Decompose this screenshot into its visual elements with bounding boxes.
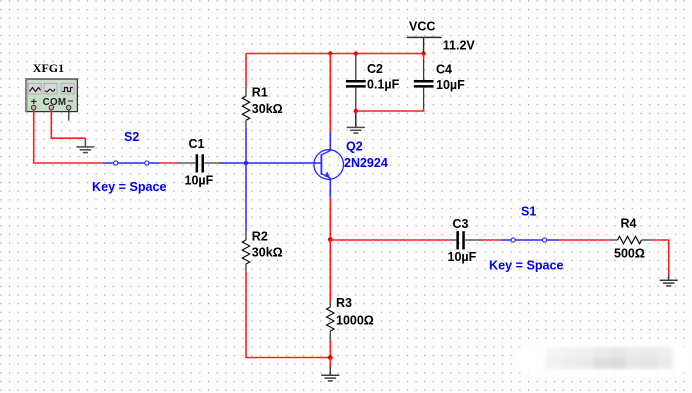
resistor R3 (327, 240, 374, 358)
svg-text:VCC: VCC (409, 20, 435, 34)
junction base node (244, 161, 248, 165)
svg-text:XFG1: XFG1 (33, 61, 64, 75)
power VCC (407, 20, 476, 54)
resistor R1 (242, 86, 282, 128)
svg-text:Q2: Q2 (346, 140, 363, 154)
svg-text:10µF: 10µF (436, 78, 465, 92)
resistor R4 (610, 217, 652, 261)
watermark blur bottom right (516, 344, 691, 375)
svg-text:1000Ω: 1000Ω (336, 314, 374, 328)
svg-text:0.1µF: 0.1µF (367, 77, 400, 91)
resistor R2 (242, 230, 282, 272)
ground right of R4 (660, 275, 678, 286)
svg-text:COM: COM (43, 97, 67, 108)
wire C3 to S1 (482, 239, 500, 241)
transistor Q2 (314, 140, 388, 180)
junction VCC at rail (421, 51, 425, 55)
wire VCC rail (246, 53, 424, 55)
svg-text:10µF: 10µF (448, 250, 477, 264)
wire R1 top to VCC rail (245, 54, 247, 87)
wire XFG1 + down to input row (34, 110, 103, 163)
wire XFG1 minus stub (68, 110, 70, 121)
svg-text:R4: R4 (621, 217, 637, 231)
svg-text:30kΩ: 30kΩ (252, 102, 283, 116)
wire C2 bottom to C4 bottom (356, 109, 424, 111)
capacitor C3 (448, 217, 483, 264)
wire S2 to C1 (160, 162, 179, 164)
wire R2 bottom to ground node (246, 272, 330, 358)
wire R1 bottom to base node to R2 (245, 128, 247, 231)
switch S2 (103, 130, 160, 165)
capacitor C1 (179, 137, 220, 188)
svg-text:2N2924: 2N2924 (344, 156, 388, 170)
wire emitter node to C3 (330, 239, 449, 241)
svg-text:R2: R2 (252, 230, 268, 244)
wire R4 to ground (652, 240, 669, 275)
junction emitter node (328, 237, 333, 242)
svg-text:S1: S1 (521, 205, 536, 219)
svg-text:C4: C4 (436, 63, 452, 77)
svg-text:C3: C3 (453, 217, 469, 231)
svg-text:S2: S2 (124, 130, 139, 144)
svg-text:10µF: 10µF (185, 174, 214, 188)
wire XFG1 COM to ground (51, 110, 85, 138)
svg-text:Key = Space: Key = Space (92, 180, 167, 194)
junction collector at rail (328, 51, 332, 55)
svg-text:R1: R1 (252, 86, 268, 100)
capacitor C2 (346, 55, 400, 111)
junction C2 bottom (354, 109, 358, 113)
junction R3 bottom (328, 355, 333, 360)
capacitor C4 (414, 54, 465, 109)
svg-text:R3: R3 (336, 296, 352, 310)
svg-text:C1: C1 (189, 137, 205, 151)
svg-text:C2: C2 (367, 62, 383, 76)
wire C1 to base node (219, 162, 322, 164)
junction C2 at rail (354, 51, 358, 55)
wire emitter down (329, 179, 331, 197)
switch S1 (500, 205, 559, 242)
wire S1 to R4 (559, 239, 610, 241)
function generator XFG1 (25, 61, 77, 112)
svg-text:500Ω: 500Ω (614, 247, 645, 261)
ground near XFG1 (76, 138, 94, 152)
svg-text:11.2V: 11.2V (443, 38, 476, 52)
wire collector (rail to Q2) (329, 54, 331, 133)
svg-text:30kΩ: 30kΩ (252, 246, 283, 260)
ground below R3 (321, 358, 339, 381)
svg-text:Key = Space: Key = Space (489, 259, 564, 273)
ground below C2 (347, 113, 365, 133)
